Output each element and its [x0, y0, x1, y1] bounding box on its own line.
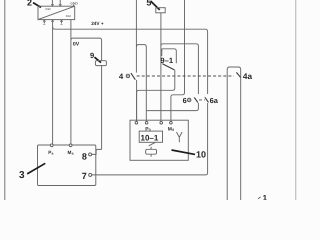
- svg-text:6: 6: [183, 96, 187, 105]
- svg-text:4: 4: [119, 72, 124, 81]
- svg-text:1: 1: [263, 194, 268, 200]
- svg-text:6a: 6a: [210, 96, 219, 105]
- svg-text:4a: 4a: [243, 72, 253, 81]
- svg-text:10: 10: [196, 150, 206, 160]
- svg-text:8: 8: [82, 151, 87, 161]
- svg-text:24V +: 24V +: [91, 21, 104, 26]
- svg-text:2: 2: [27, 0, 32, 8]
- svg-text:7: 7: [82, 171, 87, 181]
- svg-text:a: a: [52, 152, 54, 156]
- svg-text:0V: 0V: [73, 42, 80, 48]
- svg-text:0/10: 0/10: [45, 8, 51, 11]
- svg-text:GND: GND: [70, 1, 78, 5]
- svg-text:9: 9: [90, 51, 94, 60]
- svg-text:3: 3: [19, 170, 25, 181]
- svg-text:10–1: 10–1: [141, 134, 159, 143]
- svg-text:0: 0: [172, 128, 174, 132]
- svg-text:0/10: 0/10: [66, 15, 72, 18]
- svg-text:a: a: [72, 152, 74, 156]
